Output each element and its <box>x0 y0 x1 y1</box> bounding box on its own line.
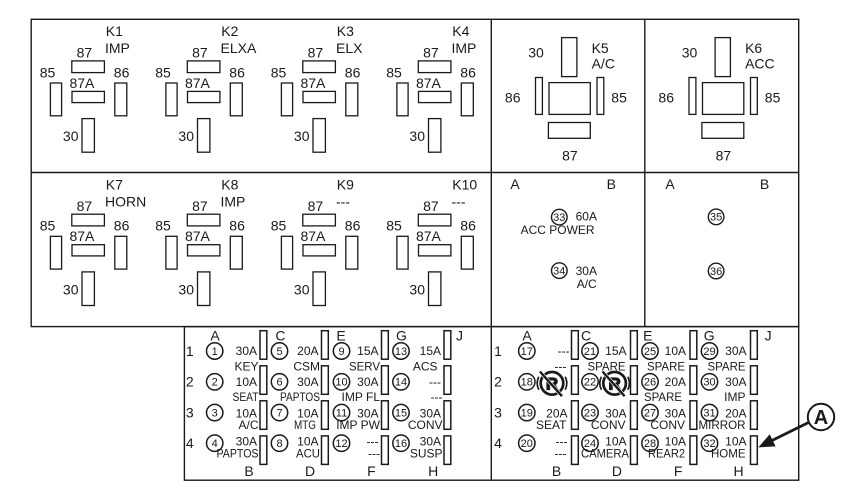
svg-text:F: F <box>367 463 376 479</box>
svg-text:---: --- <box>431 390 443 404</box>
svg-text:C: C <box>275 327 285 343</box>
svg-text:21: 21 <box>584 346 596 358</box>
svg-text:SPARE: SPARE <box>644 390 682 404</box>
svg-text:85: 85 <box>40 218 56 234</box>
svg-text:10: 10 <box>335 377 347 389</box>
svg-text:SPARE: SPARE <box>588 360 626 374</box>
svg-text:A: A <box>210 327 220 343</box>
svg-text:4: 4 <box>494 435 502 451</box>
svg-text:87: 87 <box>423 198 439 214</box>
svg-text:85: 85 <box>271 64 287 80</box>
svg-text:86: 86 <box>229 218 245 234</box>
svg-text:A: A <box>665 176 675 192</box>
svg-text:87A: 87A <box>69 228 95 244</box>
svg-text:SPARE: SPARE <box>647 360 685 374</box>
svg-text:87: 87 <box>716 148 732 164</box>
svg-text:18: 18 <box>521 377 533 389</box>
svg-text:---: --- <box>336 193 350 209</box>
svg-text:---: --- <box>452 193 466 209</box>
svg-text:MTG: MTG <box>294 418 316 432</box>
svg-text:30: 30 <box>294 128 310 144</box>
svg-text:8: 8 <box>276 438 282 450</box>
svg-text:IMP PW: IMP PW <box>336 418 380 432</box>
svg-text:A/C: A/C <box>577 277 597 291</box>
svg-text:ACC: ACC <box>745 56 775 72</box>
svg-text:86: 86 <box>460 218 476 234</box>
svg-text:20: 20 <box>521 438 533 450</box>
svg-text:B: B <box>552 463 561 479</box>
svg-text:C: C <box>581 327 591 343</box>
svg-text:86: 86 <box>114 218 130 234</box>
svg-text:86: 86 <box>229 64 245 80</box>
svg-text:G: G <box>704 327 715 343</box>
svg-text:36: 36 <box>710 266 722 278</box>
svg-text:---: --- <box>429 375 441 389</box>
svg-text:---: --- <box>368 446 380 460</box>
svg-text:REAR2: REAR2 <box>648 446 685 460</box>
svg-text:IMP: IMP <box>105 40 130 56</box>
svg-text:CAMERA: CAMERA <box>581 446 629 460</box>
svg-text:CONV: CONV <box>408 418 443 432</box>
svg-text:12: 12 <box>335 438 347 450</box>
svg-text:15A: 15A <box>420 344 441 358</box>
svg-text:D: D <box>612 463 622 479</box>
svg-text:30: 30 <box>682 44 698 60</box>
svg-text:29: 29 <box>703 346 715 358</box>
svg-text:2: 2 <box>186 374 194 390</box>
svg-text:30: 30 <box>178 281 194 297</box>
svg-text:K6: K6 <box>745 40 762 56</box>
svg-text:87: 87 <box>308 198 324 214</box>
svg-text:30A: 30A <box>297 375 318 389</box>
svg-text:14: 14 <box>395 377 407 389</box>
svg-text:IMP FL: IMP FL <box>342 390 381 404</box>
svg-text:87: 87 <box>308 45 324 61</box>
svg-text:30: 30 <box>409 281 425 297</box>
svg-text:1: 1 <box>212 346 218 358</box>
svg-text:22: 22 <box>584 377 596 389</box>
svg-text:5: 5 <box>276 346 282 358</box>
svg-text:A: A <box>522 327 532 343</box>
svg-text:86: 86 <box>505 89 521 105</box>
svg-text:30A: 30A <box>576 264 597 278</box>
svg-text:ELXA: ELXA <box>221 40 257 56</box>
svg-text:85: 85 <box>386 218 402 234</box>
svg-text:H: H <box>734 463 744 479</box>
svg-text:15: 15 <box>395 408 407 420</box>
svg-text:85: 85 <box>40 64 56 80</box>
svg-text:D: D <box>305 463 315 479</box>
svg-text:SEAT: SEAT <box>536 418 567 432</box>
svg-text:A/C: A/C <box>592 56 615 72</box>
svg-text:MIRROR: MIRROR <box>699 418 746 432</box>
svg-text:87: 87 <box>77 198 93 214</box>
svg-text:B: B <box>607 176 616 192</box>
svg-text:B: B <box>244 463 253 479</box>
svg-text:85: 85 <box>271 218 287 234</box>
svg-text:87: 87 <box>192 198 208 214</box>
svg-text:K2: K2 <box>221 23 238 39</box>
svg-text:E: E <box>643 327 652 343</box>
svg-text:86: 86 <box>345 218 361 234</box>
svg-text:ACC POWER: ACC POWER <box>521 223 595 237</box>
svg-text:KEY: KEY <box>234 360 258 374</box>
svg-text:---: --- <box>555 446 567 460</box>
svg-text:34: 34 <box>553 265 565 277</box>
svg-text:J: J <box>765 327 772 343</box>
svg-text:87: 87 <box>562 148 578 164</box>
svg-text:1: 1 <box>494 343 502 359</box>
svg-text:PAPTOS: PAPTOS <box>280 390 320 404</box>
svg-text:87: 87 <box>77 45 93 61</box>
svg-text:87A: 87A <box>69 75 95 91</box>
svg-text:H: H <box>428 463 438 479</box>
svg-text:86: 86 <box>460 64 476 80</box>
svg-text:87: 87 <box>423 45 439 61</box>
svg-text:16: 16 <box>395 438 407 450</box>
svg-text:86: 86 <box>114 64 130 80</box>
svg-text:25: 25 <box>644 346 656 358</box>
svg-text:87A: 87A <box>185 75 211 91</box>
svg-text:26: 26 <box>644 377 656 389</box>
svg-text:2: 2 <box>494 374 502 390</box>
svg-text:30A: 30A <box>236 344 257 358</box>
svg-text:30A: 30A <box>725 375 746 389</box>
svg-text:3: 3 <box>494 404 502 420</box>
svg-text:30: 30 <box>409 128 425 144</box>
svg-text:85: 85 <box>611 89 627 105</box>
svg-text:B: B <box>760 176 769 192</box>
svg-text:30A: 30A <box>357 375 378 389</box>
svg-text:13: 13 <box>395 346 407 358</box>
svg-text:K7: K7 <box>106 177 123 193</box>
svg-text:CSM: CSM <box>293 360 320 374</box>
svg-text:K8: K8 <box>221 177 238 193</box>
svg-text:15A: 15A <box>605 344 626 358</box>
svg-text:SERV: SERV <box>349 360 380 374</box>
svg-text:A/C: A/C <box>238 418 258 432</box>
svg-text:15A: 15A <box>357 344 378 358</box>
svg-text:10A: 10A <box>665 344 686 358</box>
svg-text:---: --- <box>558 344 570 358</box>
svg-text:9: 9 <box>338 346 344 358</box>
svg-text:30: 30 <box>178 128 194 144</box>
svg-text:60A: 60A <box>576 210 597 224</box>
svg-text:HORN: HORN <box>105 193 146 209</box>
svg-text:G: G <box>396 327 407 343</box>
svg-text:30: 30 <box>294 281 310 297</box>
svg-text:20A: 20A <box>297 344 318 358</box>
svg-text:IMP: IMP <box>221 193 246 209</box>
svg-text:30: 30 <box>528 44 544 60</box>
svg-text:30: 30 <box>63 128 79 144</box>
svg-text:A: A <box>814 407 828 429</box>
svg-text:10A: 10A <box>236 375 257 389</box>
svg-text:87A: 87A <box>416 228 442 244</box>
svg-text:30A: 30A <box>725 344 746 358</box>
svg-text:K4: K4 <box>452 23 469 39</box>
svg-text:30: 30 <box>63 281 79 297</box>
svg-text:85: 85 <box>386 64 402 80</box>
svg-text:85: 85 <box>765 89 781 105</box>
svg-text:ELX: ELX <box>336 40 363 56</box>
svg-text:85: 85 <box>155 218 171 234</box>
svg-text:1: 1 <box>186 343 194 359</box>
svg-text:87A: 87A <box>416 75 442 91</box>
svg-text:CONV: CONV <box>650 418 685 432</box>
svg-text:85: 85 <box>155 64 171 80</box>
svg-text:K3: K3 <box>337 23 354 39</box>
svg-text:3: 3 <box>212 408 218 420</box>
svg-text:K5: K5 <box>592 40 609 56</box>
svg-text:19: 19 <box>521 408 533 420</box>
svg-text:7: 7 <box>276 408 282 420</box>
svg-text:35: 35 <box>710 212 722 224</box>
svg-text:ACU: ACU <box>296 446 320 460</box>
svg-text:F: F <box>674 463 683 479</box>
svg-text:J: J <box>456 327 463 343</box>
svg-text:CONV: CONV <box>591 418 626 432</box>
svg-text:IMP: IMP <box>724 390 745 404</box>
svg-text:87A: 87A <box>300 75 326 91</box>
svg-text:IMP: IMP <box>452 40 477 56</box>
svg-text:SUSP: SUSP <box>410 446 443 460</box>
svg-text:2: 2 <box>212 377 218 389</box>
svg-text:86: 86 <box>345 64 361 80</box>
svg-text:17: 17 <box>521 346 533 358</box>
svg-text:87A: 87A <box>185 228 211 244</box>
svg-text:3: 3 <box>186 404 194 420</box>
svg-text:K1: K1 <box>106 23 123 39</box>
svg-text:HOME: HOME <box>711 446 746 460</box>
svg-text:4: 4 <box>186 435 194 451</box>
svg-text:6: 6 <box>276 377 282 389</box>
svg-text:20A: 20A <box>665 375 686 389</box>
svg-text:ACS: ACS <box>413 360 438 374</box>
svg-text:PAPTOS: PAPTOS <box>217 446 259 460</box>
svg-text:SEAT: SEAT <box>233 390 260 404</box>
svg-text:K9: K9 <box>337 177 354 193</box>
svg-text:E: E <box>336 327 345 343</box>
svg-text:A: A <box>510 176 520 192</box>
svg-text:86: 86 <box>658 89 674 105</box>
svg-text:87: 87 <box>192 45 208 61</box>
svg-text:SPARE: SPARE <box>708 360 746 374</box>
svg-text:K10: K10 <box>452 177 477 193</box>
svg-text:87A: 87A <box>300 228 326 244</box>
svg-text:30: 30 <box>703 377 715 389</box>
